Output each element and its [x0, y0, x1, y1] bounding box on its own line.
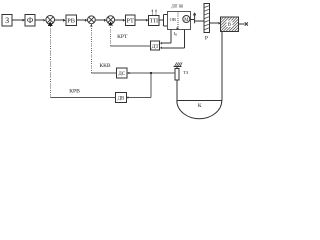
svg-text:ТЗ: ТЗ [183, 70, 188, 75]
svg-text:К: К [198, 103, 202, 109]
rope drum to cabin [221, 31, 223, 100]
block DT current sensor [151, 41, 160, 50]
wire F to node J1 [35, 19, 44, 21]
wire drum to cross [238, 23, 244, 25]
svg-text:З: З [5, 16, 9, 25]
wire Z to F [12, 19, 23, 21]
svg-text:ДВ: ДВ [118, 97, 125, 102]
block TP thyristor converter [149, 15, 160, 25]
wire TP to motor fork [159, 19, 163, 21]
svg-text:Р: Р [205, 36, 208, 42]
armature lead 2 [184, 30, 186, 48]
cabin K [177, 100, 222, 102]
svg-text:КРВ: КРВ [69, 88, 80, 94]
svg-text:М: М [184, 18, 189, 23]
svg-text:ДС: ДС [118, 72, 125, 77]
rope tension sensor element [175, 69, 179, 81]
motor armature M [183, 16, 190, 23]
wire J1 to RV [55, 19, 64, 21]
motor enclosure DPT NV [167, 12, 190, 30]
reducer R [204, 4, 210, 33]
node J2 summing junction [88, 16, 96, 24]
wire DT output to J3 [111, 45, 151, 47]
svg-text:ДТ: ДТ [152, 44, 160, 50]
block DV sensor [115, 93, 126, 103]
armature lead 1 [170, 30, 172, 44]
branch down to lower loop [150, 73, 152, 98]
svg-text:ТП: ТП [150, 17, 159, 24]
svg-text:РВ: РВ [67, 17, 75, 24]
node J1 summing junction [46, 15, 55, 24]
supply arrows above TP [151, 11, 153, 15]
svg-text:Iя: Iя [174, 31, 178, 36]
wire RT to TP [135, 19, 147, 21]
wire J3 to RT [115, 19, 124, 21]
svg-text:ДПТ НВ: ДПТ НВ [171, 4, 183, 9]
svg-text:РТ: РТ [126, 17, 134, 24]
wire RV to node J2 [76, 19, 86, 21]
block F (filter) [25, 15, 35, 27]
motor shaft [190, 18, 194, 20]
block RV regulator [66, 15, 76, 25]
elastic coupling wave [194, 13, 196, 23]
rope sensor to cabin [176, 80, 178, 101]
svg-text:ОВ: ОВ [170, 17, 176, 22]
wire J2 to node J3 [95, 19, 105, 21]
block Z (setpoint) [2, 15, 12, 27]
svg-text:КРТ: КРТ [117, 34, 128, 40]
wire R to drum [209, 22, 219, 24]
svg-text:б: б [228, 21, 231, 28]
feedback tap wire y73 [129, 72, 175, 74]
node J3 summing junction [107, 16, 115, 24]
block DS sensor [116, 68, 127, 78]
fixed support hatching [174, 66, 182, 68]
svg-text:Ф: Ф [27, 16, 33, 25]
block RT current regulator [125, 15, 135, 26]
wire DS to J2 [91, 72, 116, 74]
wire DV to J1 [51, 97, 116, 99]
attachment cross [245, 22, 248, 25]
drum b hatched [221, 17, 239, 31]
svg-text:ККВ: ККВ [99, 63, 110, 69]
